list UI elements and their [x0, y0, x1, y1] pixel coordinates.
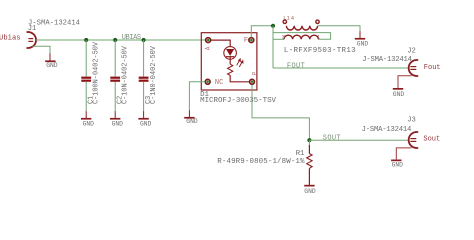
wire C3 to ground [143, 82, 145, 112]
wire C2 to ground [114, 82, 116, 112]
ground C1 [81, 111, 94, 127]
ground J3 [391, 160, 403, 169]
svg-text:UBIAS: UBIAS [122, 34, 141, 42]
ground transformer [355, 31, 369, 47]
ground J2 [393, 88, 405, 98]
D1 pin F [249, 38, 254, 43]
svg-text:GND: GND [392, 162, 404, 169]
svg-text:3: 3 [282, 33, 285, 40]
svg-text:J-SMA-132414: J-SMA-132414 [362, 56, 412, 64]
D1 diode triangle [226, 49, 234, 56]
svg-text:P: P [252, 71, 259, 75]
wire C2 drop [114, 40, 116, 77]
D1 internal quench resistor [228, 64, 233, 75]
capacitor C1 [81, 41, 100, 104]
junction SOUT node [307, 138, 311, 142]
svg-text:Sout: Sout [423, 136, 440, 144]
svg-text:C-1N0-0402-50V: C-1N0-0402-50V [150, 45, 158, 104]
svg-text:GND: GND [393, 91, 405, 98]
svg-text:GND: GND [186, 118, 198, 125]
wire C3 drop [143, 40, 145, 77]
svg-text:L1: L1 [283, 15, 290, 22]
junction above C2 [113, 38, 117, 42]
svg-text:C-100N-0402-50V: C-100N-0402-50V [93, 41, 101, 104]
wire C1 drop [85, 40, 87, 77]
svg-text:NC: NC [215, 79, 223, 87]
svg-text:GND: GND [83, 121, 95, 128]
svg-text:SOUT: SOUT [323, 135, 341, 143]
connector J1 [27, 32, 37, 48]
svg-text:MICROFJ-30035-TSV: MICROFJ-30035-TSV [200, 97, 276, 105]
wire Ubias main [36, 39, 205, 41]
D1 pin NC [205, 79, 210, 84]
wire FOUT [273, 67, 410, 69]
svg-text:GND: GND [46, 62, 58, 69]
transformer secondary winding [284, 35, 318, 39]
svg-text:J-SMA-132414: J-SMA-132414 [362, 126, 412, 134]
svg-text:J1: J1 [28, 25, 37, 33]
capacitor C2 [110, 45, 129, 104]
wire between windings to secondary right [273, 33, 331, 40]
junction above C1 [84, 38, 88, 42]
ground J1 [45, 53, 58, 69]
resistor R1 [307, 145, 312, 185]
svg-text:GND: GND [112, 121, 124, 128]
svg-text:R1: R1 [296, 150, 305, 158]
D1 pin P [250, 79, 255, 84]
ground R1 [304, 185, 316, 195]
wire primary right to ground [318, 26, 360, 32]
capacitor C3 [139, 45, 158, 104]
D1 internal wire diode to resistor [229, 57, 231, 64]
svg-text:FOUT: FOUT [287, 63, 305, 71]
wire stub to secondary left [273, 38, 284, 40]
wire SOUT [309, 139, 409, 141]
transformer L1 primary winding [286, 26, 317, 30]
wire R1 top lead [308, 140, 310, 145]
ground C3 [138, 111, 151, 127]
junction above C3 [142, 38, 146, 42]
connector J3 [409, 132, 419, 148]
svg-text:R-49R9-0805-1/8W-1%: R-49R9-0805-1/8W-1% [217, 158, 305, 166]
svg-text:Fout: Fout [424, 64, 441, 72]
D1 photodiode circle [224, 47, 237, 60]
svg-text:A: A [205, 46, 212, 50]
wire J3 shield [396, 148, 411, 160]
svg-text:C-10N-0402-50V: C-10N-0402-50V [122, 45, 130, 104]
svg-text:GND: GND [304, 188, 316, 195]
svg-text:J3: J3 [407, 117, 416, 125]
D1 internal wire to P pin [230, 75, 249, 81]
svg-text:GND: GND [357, 40, 369, 47]
connector J2 [409, 60, 419, 76]
D1 photon arrow 2 [239, 61, 243, 67]
wire NC to ground [189, 82, 205, 111]
D1 photon arrow 1 [237, 59, 241, 65]
ground C2 [110, 111, 123, 127]
junction F node [271, 24, 275, 28]
wire P pin to SOUT node [252, 85, 309, 140]
transformer polarity dot right [316, 20, 319, 23]
wire J2 shield [398, 76, 412, 88]
wire C1 to ground [85, 82, 87, 112]
svg-text:L-RFXF9503-TR13: L-RFXF9503-TR13 [284, 47, 356, 55]
SiPM D1 box [201, 33, 257, 90]
transformer polarity dot left [283, 20, 286, 23]
svg-text:F: F [244, 37, 248, 45]
D1 diode cathode bar [226, 56, 234, 58]
wire J1 shield [33, 46, 51, 53]
wire vertical drop to FOUT [272, 26, 274, 68]
svg-text:Ubias: Ubias [0, 35, 21, 43]
wire F pin up to transformer [251, 26, 273, 38]
D1 pin A [206, 38, 211, 43]
D1 internal anode wire [211, 40, 230, 47]
svg-text:J2: J2 [407, 47, 416, 55]
svg-text:GND: GND [140, 121, 152, 128]
ground NC [184, 110, 198, 125]
